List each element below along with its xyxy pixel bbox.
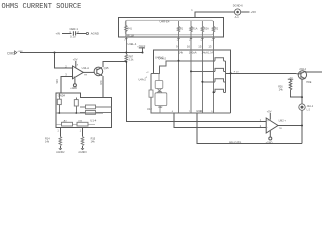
resistor R8 (on col0 under TREF) xyxy=(125,54,128,61)
svg-text:+5V: +5V xyxy=(267,110,272,114)
opamp U1A xyxy=(55,53,95,94)
svg-text:24k: 24k xyxy=(279,89,284,92)
junction dots xyxy=(54,52,304,127)
wire output base xyxy=(225,72,296,74)
svg-text:+1: +1 xyxy=(145,77,148,79)
svg-text:HOE: HOE xyxy=(306,81,312,84)
transistor Q2 xyxy=(297,71,307,79)
wire feedback bottom xyxy=(197,113,302,144)
svg-text:15: 15 xyxy=(198,45,202,49)
svg-text:140uA: 140uA xyxy=(189,50,197,54)
svg-text:1: 1 xyxy=(80,129,82,132)
svg-text:U4R-E4: U4R-E4 xyxy=(160,19,170,23)
euro resistor row1 xyxy=(215,58,224,61)
svg-text:0.1u: 0.1u xyxy=(70,35,76,39)
pin ticks below U4 xyxy=(125,38,214,39)
svg-text:CER-1: CER-1 xyxy=(70,27,79,31)
svg-text:+5V: +5V xyxy=(73,58,78,62)
wire row3 xyxy=(202,81,225,83)
svg-text:+GND: +GND xyxy=(266,141,273,144)
resistor R43 xyxy=(190,21,192,37)
svg-text:TR: TR xyxy=(84,75,87,77)
inner package outline xyxy=(125,20,213,34)
svg-text:U4EL-4: U4EL-4 xyxy=(128,42,137,46)
euro resistor R18 xyxy=(77,122,88,126)
svg-text:2.3k: 2.3k xyxy=(129,59,134,62)
svg-text:R2: R2 xyxy=(215,27,219,30)
svg-text:GND4: GND4 xyxy=(58,94,66,98)
euro resistor row3 xyxy=(215,79,224,82)
wire J1 right xyxy=(241,11,250,13)
svg-text:+5V: +5V xyxy=(289,77,293,79)
resistor network U4 box xyxy=(118,18,223,38)
euro resistor row4 xyxy=(215,89,224,92)
svg-text:LM2 +: LM2 + xyxy=(279,119,287,123)
ground AGND2 xyxy=(59,148,62,149)
resistor R45 xyxy=(212,21,214,37)
svg-text:+GND: +GND xyxy=(70,87,77,90)
wire collector Q2 xyxy=(306,71,322,73)
wire input CMD horizontal xyxy=(20,52,143,54)
svg-text:+5V: +5V xyxy=(251,10,256,14)
net values row xyxy=(179,50,214,54)
svg-text:14k: 14k xyxy=(179,50,184,54)
svg-text:L-2: L-2 xyxy=(307,110,311,112)
svg-text:R24: R24 xyxy=(99,81,102,86)
opamp U1B xyxy=(266,113,302,140)
pin numbers xyxy=(177,40,214,42)
wire col4 xyxy=(213,37,215,113)
wire row1 xyxy=(170,60,225,62)
wire emitter Q2 down xyxy=(301,79,303,104)
svg-text:AGND: AGND xyxy=(91,32,99,36)
svg-text:CMD: CMD xyxy=(7,51,15,55)
svg-text:13: 13 xyxy=(208,45,212,49)
svg-text:8: 8 xyxy=(77,64,79,66)
euro resistor R12 xyxy=(74,100,78,106)
resistor R42 xyxy=(177,21,179,37)
svg-text:Q15: Q15 xyxy=(104,66,109,70)
svg-text:J4A-1: J4A-1 xyxy=(307,105,314,108)
wire col3 xyxy=(201,37,203,113)
svg-text:16: 16 xyxy=(187,45,191,49)
wire J1 feed xyxy=(195,12,234,18)
svg-text:4R.1M: 4R.1M xyxy=(127,34,134,37)
svg-text:R41: R41 xyxy=(127,28,132,31)
wire cap left lead xyxy=(62,33,72,35)
svg-text:R2A: R2A xyxy=(204,27,209,30)
connector J1 xyxy=(235,9,241,15)
input terminal CMD xyxy=(7,51,24,55)
svg-text:2N4-4: 2N4-4 xyxy=(299,68,306,71)
svg-text:+2: +2 xyxy=(146,72,149,74)
wire left edge xyxy=(151,73,231,113)
svg-text:R1: R1 xyxy=(180,27,184,30)
pins below U1-4 xyxy=(60,128,82,149)
euro resistor R13 xyxy=(86,105,96,109)
resistor R14 xyxy=(59,137,62,146)
euro resistor row2 xyxy=(215,68,224,71)
wire opamp2 pin2 xyxy=(174,113,266,127)
svg-text:A-1: A-1 xyxy=(235,15,240,19)
resistor R26 with +5V bar xyxy=(288,79,302,97)
wire col2 xyxy=(190,37,192,113)
resistor R15 xyxy=(81,137,84,146)
euro resistor R11 xyxy=(57,99,61,104)
svg-text:P ref: P ref xyxy=(234,70,239,73)
transistor pair inside U12 xyxy=(155,73,167,113)
interior wires U1-4 xyxy=(56,93,112,124)
svg-text:R1A: R1A xyxy=(193,27,198,30)
svg-text:DGND-6: DGND-6 xyxy=(233,4,244,8)
wire row2 xyxy=(191,70,225,72)
svg-text:AGND2: AGND2 xyxy=(56,151,65,154)
svg-text:TR: TR xyxy=(279,128,282,130)
resistor R41 (in box, left) xyxy=(125,20,127,37)
svg-text:-: - xyxy=(267,126,268,129)
svg-text:1,.14: 1,.14 xyxy=(208,51,214,54)
svg-text:U1-4: U1-4 xyxy=(90,119,97,123)
svg-text:-: - xyxy=(73,67,74,70)
node TREF flag xyxy=(137,45,145,52)
box U1-4 (lower-left) xyxy=(56,93,112,127)
wire bus xyxy=(224,61,226,93)
svg-text:14k: 14k xyxy=(45,141,50,144)
euro resistor R17 xyxy=(62,122,73,126)
ground AGND3 xyxy=(81,148,84,149)
svg-text:OHMS CURRENT SOURCE: OHMS CURRENT SOURCE xyxy=(2,3,82,11)
svg-text:U12: U12 xyxy=(147,107,152,111)
transistor Q15 xyxy=(94,62,126,98)
wire stair xyxy=(151,61,170,74)
U12 switch block xyxy=(151,61,231,113)
svg-text:+IN: +IN xyxy=(56,32,60,36)
svg-text:U4R-2: U4R-2 xyxy=(159,57,167,61)
svg-text:U14-A: U14-A xyxy=(82,66,90,70)
wire cap right lead xyxy=(77,33,87,35)
svg-text:wire 2 ohm: wire 2 ohm xyxy=(229,141,241,144)
columns from U4 pins xyxy=(126,37,213,113)
svg-text:AGND3: AGND3 xyxy=(78,151,87,154)
capacitor C1 xyxy=(73,31,88,35)
svg-text:1: 1 xyxy=(191,9,193,12)
euro resistor left notch xyxy=(149,90,153,97)
svg-text:R23: R23 xyxy=(55,79,58,84)
wire col0 xyxy=(125,37,127,54)
svg-text:9: 9 xyxy=(176,45,178,49)
wire row4 xyxy=(214,91,226,93)
resistor R44 xyxy=(201,21,203,37)
euro resistor R16 xyxy=(86,111,96,115)
svg-text:1: 1 xyxy=(57,129,59,132)
wire routing top xyxy=(154,50,231,113)
svg-text:14k: 14k xyxy=(91,141,96,144)
connector J2 xyxy=(299,104,305,110)
wire col1 xyxy=(178,37,180,113)
wire J2 down xyxy=(301,111,303,144)
svg-text:+REF: +REF xyxy=(17,51,23,53)
wire opamp2 pin3 xyxy=(126,62,266,122)
svg-text:U42: U42 xyxy=(158,106,163,109)
